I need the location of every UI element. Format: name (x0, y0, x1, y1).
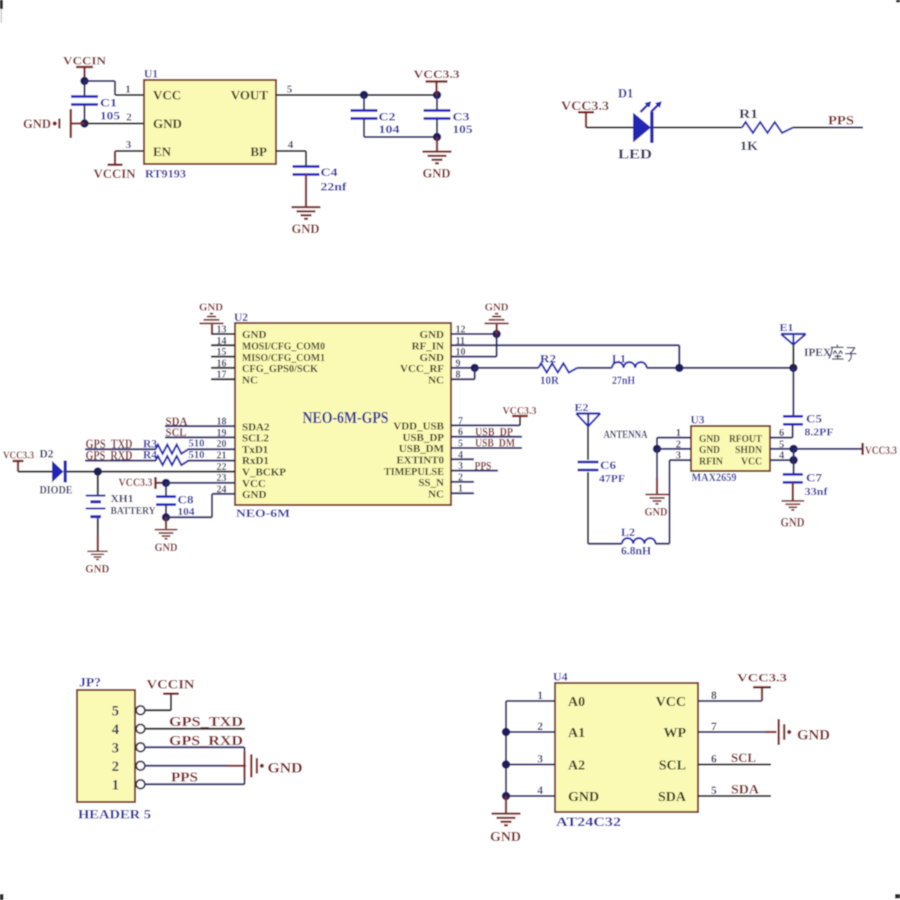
svg-text:DIODE: DIODE (40, 483, 73, 497)
svg-text:VCC: VCC (741, 455, 762, 467)
svg-text:VCCIN: VCCIN (147, 677, 196, 692)
svg-text:VCCIN: VCCIN (63, 54, 106, 68)
svg-text:510: 510 (189, 437, 205, 449)
svg-text:8.2PF: 8.2PF (805, 427, 834, 439)
svg-text:1: 1 (112, 778, 119, 794)
svg-text:105: 105 (100, 111, 120, 123)
svg-text:NC: NC (428, 374, 444, 386)
svg-text:LED: LED (618, 147, 652, 162)
svg-text:PPS: PPS (475, 460, 492, 472)
svg-text:C6: C6 (600, 460, 616, 472)
svg-text:1: 1 (125, 84, 131, 96)
svg-text:RxD1: RxD1 (242, 455, 269, 467)
svg-text:GND: GND (199, 302, 223, 314)
svg-text:4: 4 (288, 139, 294, 151)
svg-text:GND: GND (490, 829, 521, 844)
svg-text:A2: A2 (568, 758, 585, 773)
svg-text:BATTERY: BATTERY (111, 506, 156, 517)
svg-text:CFG_GPS0/SCK: CFG_GPS0/SCK (242, 363, 318, 375)
svg-text:GND: GND (699, 444, 720, 456)
svg-text:C2: C2 (379, 110, 396, 124)
svg-text:C5: C5 (806, 414, 822, 426)
svg-text:VDD_USB: VDD_USB (393, 421, 444, 433)
svg-text:GND: GND (797, 728, 830, 744)
svg-text:GND: GND (568, 790, 599, 805)
svg-text:GND: GND (485, 302, 509, 314)
svg-text:VOUT: VOUT (231, 88, 269, 103)
svg-text:TIMEPULSE: TIMEPULSE (384, 466, 444, 478)
svg-text:VCC3.3: VCC3.3 (119, 477, 153, 489)
svg-text:PPS: PPS (828, 113, 854, 128)
svg-text:17: 17 (217, 370, 227, 381)
svg-text:C4: C4 (321, 165, 338, 179)
svg-text:16: 16 (217, 358, 227, 369)
svg-text:A0: A0 (568, 695, 585, 710)
svg-text:GND: GND (155, 542, 178, 554)
svg-text:R1: R1 (739, 106, 758, 121)
svg-text:A1: A1 (568, 726, 585, 741)
svg-text:SDA: SDA (658, 790, 687, 805)
svg-text:22nf: 22nf (321, 182, 347, 194)
svg-text:104: 104 (178, 506, 196, 518)
svg-text:SHDN: SHDN (735, 444, 762, 456)
svg-text:GND: GND (292, 222, 320, 236)
svg-text:NEO-6M-GPS: NEO-6M-GPS (303, 408, 389, 427)
svg-text:SCL2: SCL2 (242, 433, 269, 445)
svg-text:C7: C7 (806, 473, 822, 485)
svg-text:BP: BP (250, 144, 267, 159)
svg-text:RFIN: RFIN (699, 455, 723, 467)
svg-text:E2: E2 (575, 402, 590, 414)
svg-text:47PF: 47PF (599, 473, 625, 485)
svg-text:AT24C32: AT24C32 (556, 814, 621, 829)
svg-text:USB_DP: USB_DP (402, 432, 444, 444)
svg-text:HEADER 5: HEADER 5 (78, 807, 152, 822)
svg-text:JP?: JP? (79, 676, 101, 690)
svg-text:2: 2 (112, 759, 119, 775)
svg-text:27nH: 27nH (612, 375, 635, 387)
svg-text:L2: L2 (621, 527, 635, 539)
svg-text:VCC3.3: VCC3.3 (865, 445, 897, 457)
svg-text:SCL: SCL (659, 758, 686, 773)
svg-text:USB_DM: USB_DM (475, 438, 515, 450)
svg-text:ANTENNA: ANTENNA (604, 427, 648, 441)
svg-text:D2: D2 (40, 446, 54, 460)
svg-text:C1: C1 (100, 96, 117, 110)
svg-text:MOSI/CFG_COM0: MOSI/CFG_COM0 (242, 341, 325, 353)
svg-text:U4: U4 (553, 670, 568, 684)
svg-text:GND: GND (645, 507, 668, 519)
svg-text:D1: D1 (618, 87, 633, 101)
svg-text:GND: GND (153, 116, 182, 131)
svg-text:C8: C8 (178, 494, 194, 506)
svg-text:3: 3 (112, 741, 119, 757)
svg-text:L1: L1 (612, 353, 626, 365)
svg-text:SDA: SDA (731, 782, 760, 797)
svg-text:V_BCKP: V_BCKP (242, 467, 286, 479)
svg-text:5: 5 (287, 84, 293, 96)
svg-text:GND: GND (699, 433, 720, 445)
svg-text:GND: GND (781, 516, 805, 530)
svg-text:EN: EN (153, 144, 172, 159)
svg-text:EXTINT0: EXTINT0 (396, 455, 444, 467)
svg-text:6.8nH: 6.8nH (621, 546, 651, 558)
svg-text:GND: GND (268, 760, 303, 776)
svg-text:15: 15 (217, 347, 227, 358)
svg-text:TxD1: TxD1 (242, 444, 268, 456)
svg-text:NC: NC (428, 488, 444, 500)
svg-text:R4: R4 (143, 450, 157, 462)
svg-text:E1: E1 (780, 322, 794, 334)
svg-text:R2: R2 (540, 353, 556, 365)
svg-text:MISO/CFG_COM1: MISO/CFG_COM1 (242, 352, 325, 364)
svg-text:33nf: 33nf (805, 486, 828, 498)
svg-text:NC: NC (242, 374, 258, 386)
svg-text:SS_N: SS_N (418, 477, 444, 489)
svg-text:RFOUT: RFOUT (729, 433, 763, 445)
svg-text:1K: 1K (740, 138, 759, 153)
svg-text:104: 104 (379, 124, 400, 136)
svg-text:10R: 10R (540, 375, 560, 387)
svg-text:NEO-6M: NEO-6M (236, 508, 290, 520)
svg-text:MAX2659: MAX2659 (692, 470, 737, 484)
svg-text:VCC3.3: VCC3.3 (561, 99, 609, 113)
svg-text:C3: C3 (453, 110, 470, 124)
svg-text:SCL: SCL (731, 750, 756, 765)
svg-text:510: 510 (189, 449, 205, 461)
svg-text:U2: U2 (234, 312, 248, 324)
svg-text:GND: GND (242, 489, 267, 501)
svg-text:GND: GND (85, 562, 109, 576)
svg-text:WP: WP (663, 726, 686, 741)
svg-text:VCC3.3: VCC3.3 (414, 67, 460, 81)
svg-text:USB_DM: USB_DM (399, 443, 445, 455)
svg-text:SCL: SCL (166, 427, 187, 439)
svg-text:USB_DP: USB_DP (475, 426, 513, 438)
svg-text:R3: R3 (143, 438, 157, 450)
svg-text:VCCIN: VCCIN (94, 167, 136, 181)
svg-text:4: 4 (112, 722, 119, 738)
svg-text:GND: GND (423, 167, 451, 181)
svg-text:14: 14 (217, 336, 227, 347)
svg-text:U1: U1 (144, 69, 158, 81)
svg-text:SDA2: SDA2 (242, 421, 270, 433)
svg-text:XH1: XH1 (111, 494, 134, 505)
svg-text:RF_IN: RF_IN (412, 341, 444, 353)
svg-text:VCC: VCC (242, 478, 266, 490)
svg-text:GND: GND (420, 329, 445, 341)
svg-text:GPS_RXD: GPS_RXD (169, 733, 243, 748)
svg-text:VCC3.3: VCC3.3 (503, 405, 537, 417)
svg-text:GND: GND (420, 352, 445, 364)
svg-text:RT9193: RT9193 (145, 167, 186, 181)
svg-text:PPS: PPS (171, 769, 198, 784)
svg-text:IPEX: IPEX (804, 347, 832, 359)
svg-text:3: 3 (126, 139, 132, 151)
svg-text:GPS_RXD: GPS_RXD (86, 448, 133, 462)
svg-text:2: 2 (126, 112, 132, 124)
svg-text:SDA: SDA (166, 416, 189, 428)
svg-text:GND: GND (23, 117, 51, 131)
svg-text:GPS_TXD: GPS_TXD (169, 714, 243, 729)
svg-text:13: 13 (217, 325, 227, 336)
svg-text:VCC_RF: VCC_RF (400, 363, 444, 375)
svg-text:105: 105 (453, 124, 473, 136)
svg-text:VCC3.3: VCC3.3 (737, 671, 787, 685)
svg-text:VCC: VCC (153, 88, 181, 103)
svg-text:VCC3.3: VCC3.3 (3, 449, 34, 461)
svg-text:U3: U3 (691, 415, 705, 427)
svg-text:GND: GND (242, 329, 267, 341)
svg-text:VCC: VCC (656, 695, 686, 710)
svg-text:5: 5 (112, 704, 119, 720)
